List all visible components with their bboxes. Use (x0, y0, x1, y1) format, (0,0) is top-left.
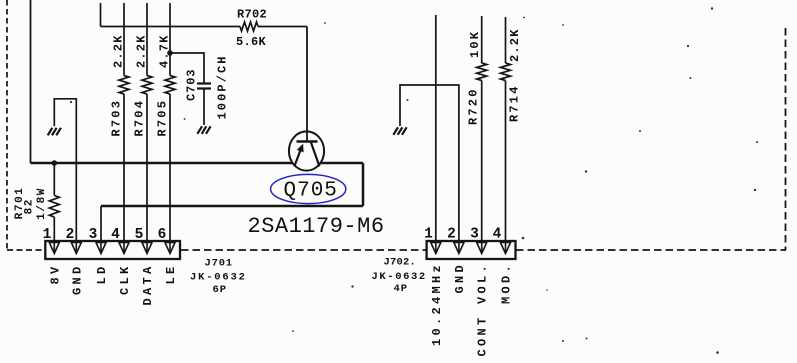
border: bottom dashed line (between J701 and J702) (181, 249, 426, 251)
svg-text:LD: LD (95, 264, 109, 285)
svg-text:3: 3 (470, 227, 479, 243)
pin 2 arrow J701 (71, 243, 81, 254)
svg-text:8V: 8V (48, 264, 62, 285)
svg-text:CONT VOL.: CONT VOL. (476, 262, 490, 357)
pin 6 arrow J701 (165, 243, 175, 254)
svg-text:R714: R714 (507, 84, 521, 122)
svg-text:4: 4 (111, 227, 120, 243)
resistor R720 (477, 63, 487, 81)
svg-text:2SA1179-M6: 2SA1179-M6 (248, 214, 385, 239)
resistor R703 (119, 76, 129, 95)
wire: 8V drop to R701 (53, 163, 55, 196)
ground: J702 GND (393, 127, 406, 135)
svg-text:Q705: Q705 (284, 180, 338, 203)
wire: R705 line top (169, 3, 171, 76)
svg-text:6P: 6P (213, 284, 228, 296)
svg-text:2.2K: 2.2K (111, 34, 125, 68)
svg-text:MOD.: MOD. (500, 262, 514, 304)
wire: CONT VOL line top (481, 16, 483, 63)
resistor R705 (165, 76, 175, 95)
transistor Q2SA body circle (289, 131, 324, 170)
wire: collector loop bottom (to LD) (101, 205, 363, 208)
wire: 10.24MHz line (435, 15, 437, 252)
svg-text:GND: GND (453, 262, 467, 294)
svg-text:3: 3 (89, 227, 98, 243)
wire: emitter rail y=163 (31, 162, 364, 164)
node: junction LE line to C703 (167, 50, 173, 56)
pin 3 arrow J702 (477, 243, 487, 254)
svg-text:1/8W: 1/8W (36, 187, 48, 220)
resistor R704 (142, 76, 152, 95)
pin 4 arrow J701 (119, 243, 129, 254)
border: bottom dashed line (right of J702) (516, 249, 786, 251)
ground: J701 GND (48, 128, 61, 136)
wire: R703 line top (123, 3, 125, 76)
svg-text:2.2K: 2.2K (508, 28, 522, 62)
pin numbers J702 (424, 227, 502, 243)
pin 1 arrow J702 (431, 243, 441, 254)
pin 1 arrow J701 (49, 243, 59, 254)
svg-text:JK-0632: JK-0632 (190, 272, 247, 284)
svg-text:1: 1 (43, 227, 52, 243)
svg-text:2: 2 (447, 227, 456, 243)
highlight ellipse around Q705 (blue) (271, 174, 346, 203)
wire: J702 GND loop (400, 85, 459, 252)
pin 4 arrow J702 (501, 243, 511, 254)
svg-text:J702.: J702. (384, 257, 417, 269)
resistor R701 (49, 196, 59, 218)
svg-text:DATA: DATA (141, 264, 155, 306)
node: junction on 8V line (52, 160, 58, 166)
resistor R714 (501, 63, 511, 81)
wire: C703 bottom lead (203, 89, 205, 126)
wire: MOD line bottom (505, 81, 507, 253)
border: bottom dashed line (left of J701) (7, 249, 44, 251)
svg-text:100P/CH: 100P/CH (216, 54, 230, 119)
border: left dashed line (6, 0, 8, 249)
border: right dashed line (785, 28, 787, 250)
svg-text:6: 6 (158, 227, 167, 243)
resistor R702 (240, 22, 258, 31)
pin name labels J702 (430, 262, 514, 357)
wire: GND pin2 loop (54, 99, 76, 252)
svg-text:GND: GND (70, 264, 84, 296)
pin 2 arrow J702 (454, 243, 464, 254)
svg-text:JK-0632: JK-0632 (372, 271, 427, 283)
wire: top rail left of R702 (101, 26, 241, 28)
svg-text:2.2K: 2.2K (134, 34, 148, 68)
label R701 value (14, 187, 48, 220)
connector J701 box (45, 241, 180, 259)
wire: left vertical from top (30, 0, 32, 163)
svg-text:C703: C703 (185, 69, 199, 101)
pin name labels J701 (48, 264, 178, 306)
svg-text:R703: R703 (110, 99, 124, 137)
wire: R705 line bottom (169, 94, 171, 252)
svg-text:5.6K: 5.6K (236, 35, 267, 49)
wire: collector loop right side (362, 163, 365, 206)
pin 3 arrow J701 (96, 243, 106, 254)
wire: junction to C703 top (170, 53, 204, 83)
svg-text:J701: J701 (205, 258, 233, 270)
transistor Q705 base bar (297, 140, 318, 143)
pin numbers J701 (43, 227, 167, 243)
pin 5 arrow J701 (142, 243, 152, 254)
ground: C703 (197, 126, 210, 134)
transistor Q705 emitter leg with arrow (294, 148, 301, 167)
wire: stub above top rail (100, 3, 102, 27)
connector J702 box (427, 241, 516, 259)
svg-text:5: 5 (135, 227, 144, 243)
svg-text:R705: R705 (156, 99, 170, 137)
wire: CONT VOL line bottom (481, 81, 483, 253)
wire: R704 line bottom (146, 94, 148, 252)
wire: R701 to pin 1 (53, 217, 55, 252)
svg-text:R704: R704 (133, 99, 147, 137)
svg-text:1: 1 (424, 227, 433, 243)
svg-text:4P: 4P (394, 283, 409, 295)
svg-text:LE: LE (164, 264, 178, 285)
svg-text:CLK: CLK (118, 264, 132, 296)
capacitor C703 plates (197, 84, 211, 89)
transistor Q705 collector leg (311, 143, 320, 167)
wire: R704 line top (146, 3, 148, 76)
svg-text:82: 82 (24, 198, 36, 214)
svg-text:10.24MHz: 10.24MHz (430, 262, 444, 346)
svg-text:R702: R702 (237, 8, 267, 22)
wire: top rail right of R702, down to Q705 base (258, 26, 307, 28)
svg-text:2: 2 (66, 227, 75, 243)
wire: base lead from R702 rail (306, 27, 308, 142)
wire: LD drop to pin 3 (100, 206, 102, 252)
svg-text:R720: R720 (467, 87, 481, 125)
wire: R703 line bottom (123, 94, 125, 252)
svg-text:4: 4 (493, 227, 502, 243)
wire: MOD line top (505, 17, 507, 63)
svg-text:10K: 10K (468, 30, 482, 58)
